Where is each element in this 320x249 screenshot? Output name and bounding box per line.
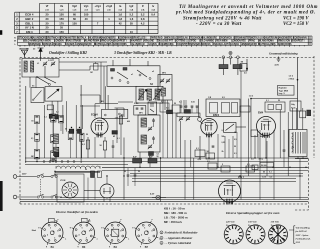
svg-text:5: 5 bbox=[222, 164, 223, 166]
svg-text:ECH 4: ECH 4 bbox=[25, 13, 34, 17]
svg-text:0,1: 0,1 bbox=[222, 130, 225, 132]
svg-text:EBF2: EBF2 bbox=[213, 114, 220, 117]
svg-text:110V - Sytten: 110V - Sytten bbox=[296, 234, 309, 237]
svg-text:4: 4 bbox=[79, 234, 80, 237]
svg-text:4: 4 bbox=[110, 234, 111, 237]
svg-text:STOCKHOLM: STOCKHOLM bbox=[18, 38, 32, 40]
svg-text:0,1: 0,1 bbox=[44, 117, 47, 119]
svg-text:6: 6 bbox=[82, 227, 83, 229]
svg-text:LUXEMBOURG: LUXEMBOURG bbox=[158, 44, 174, 46]
svg-text:50: 50 bbox=[234, 146, 236, 148]
svg-text:50: 50 bbox=[31, 121, 33, 123]
svg-text:LONDON REG: LONDON REG bbox=[231, 41, 246, 43]
svg-text:Type M08: Type M08 bbox=[279, 90, 289, 92]
svg-text:60: 60 bbox=[73, 13, 76, 17]
svg-text:6: 6 bbox=[144, 227, 145, 229]
svg-text:60: 60 bbox=[73, 17, 76, 21]
svg-text:DEUTSCHLANDS: DEUTSCHLANDS bbox=[258, 43, 276, 46]
svg-text:20: 20 bbox=[46, 17, 49, 21]
svg-text:WARSZAWA: WARSZAWA bbox=[188, 43, 201, 46]
svg-text:fra 220V til: fra 220V til bbox=[296, 230, 307, 233]
svg-text:UY1N: UY1N bbox=[60, 180, 66, 182]
svg-text:ANKARA: ANKARA bbox=[52, 43, 62, 46]
svg-text:KAUNAS: KAUNAS bbox=[65, 43, 75, 46]
svg-text:MOSKVA: MOSKVA bbox=[42, 43, 52, 46]
svg-text:4: 4 bbox=[141, 234, 142, 237]
svg-text:Type 110a: Type 110a bbox=[226, 224, 237, 227]
svg-text:0,4: 0,4 bbox=[151, 13, 155, 17]
svg-text:0,1: 0,1 bbox=[266, 100, 269, 102]
svg-text:8: 8 bbox=[89, 230, 90, 232]
svg-text:50: 50 bbox=[124, 171, 126, 173]
svg-text:BUDAPEST I: BUDAPEST I bbox=[114, 40, 127, 43]
svg-text:Vg1: Vg1 bbox=[84, 4, 89, 8]
svg-text:If: If bbox=[142, 4, 144, 8]
svg-text:SOTTENS: SOTTENS bbox=[175, 41, 186, 43]
svg-text:20: 20 bbox=[46, 26, 49, 30]
svg-text:2: 2 bbox=[54, 238, 55, 240]
svg-text:volt: volt bbox=[107, 9, 111, 12]
svg-text:50: 50 bbox=[278, 100, 280, 102]
svg-text:STOCKHOLM: STOCKHOLM bbox=[189, 38, 203, 40]
svg-text:4,2: 4,2 bbox=[141, 21, 145, 25]
svg-text:2: 2 bbox=[161, 238, 162, 240]
svg-text:150: 150 bbox=[59, 30, 64, 34]
svg-text:HUIZEN: HUIZEN bbox=[149, 44, 157, 46]
svg-text:RADIO PARIS: RADIO PARIS bbox=[113, 43, 127, 46]
svg-text:0,25: 0,25 bbox=[222, 142, 226, 144]
svg-text:BRESLAU: BRESLAU bbox=[178, 37, 189, 40]
svg-text:Vf: Vf bbox=[46, 4, 49, 8]
svg-text:Forbindelser fl.: Forbindelser fl. bbox=[296, 237, 311, 240]
svg-text:400: 400 bbox=[127, 120, 130, 123]
svg-text:0,1: 0,1 bbox=[117, 138, 120, 140]
svg-text:3 Omskifter-Stillinger KB2 - M: 3 Omskifter-Stillinger KB2 - MB - LB bbox=[113, 51, 172, 55]
svg-text:Diverse Omskifter set fra nede: Diverse Omskifter set fra neden bbox=[55, 210, 98, 214]
svg-text:DROITWICH: DROITWICH bbox=[46, 38, 59, 40]
svg-text:1: 1 bbox=[262, 159, 263, 161]
svg-text:0,1: 0,1 bbox=[31, 138, 34, 140]
svg-text:4,5V: 4,5V bbox=[150, 193, 155, 196]
svg-text:- - Apparatets Klemmer: - - Apparatets Klemmer bbox=[165, 236, 194, 240]
svg-text:mA: mA bbox=[151, 9, 155, 12]
svg-text:g: g bbox=[77, 246, 78, 248]
svg-text:PRAG: PRAG bbox=[249, 40, 255, 43]
svg-text:0,1: 0,1 bbox=[234, 153, 237, 155]
svg-text:WIEN OSLO: WIEN OSLO bbox=[165, 38, 177, 40]
svg-text:volt: volt bbox=[73, 9, 77, 12]
svg-text:0,1: 0,1 bbox=[184, 107, 187, 109]
svg-text:LEIPZIG: LEIPZIG bbox=[188, 41, 196, 43]
svg-text:MOTALA LUX: MOTALA LUX bbox=[251, 37, 265, 40]
svg-text:KAUNAS: KAUNAS bbox=[230, 43, 240, 46]
svg-text:2 Watt: 2 Watt bbox=[289, 77, 295, 80]
svg-text:BRNO LYON: BRNO LYON bbox=[277, 41, 290, 43]
svg-text:volt: volt bbox=[45, 9, 49, 12]
svg-text:KB f : 16 - 50 m: KB f : 16 - 50 m bbox=[164, 207, 185, 211]
svg-text:VC2 = 150 V: VC2 = 150 V bbox=[283, 22, 309, 27]
svg-text:4-5V: 4-5V bbox=[275, 63, 280, 66]
svg-text:0,05: 0,05 bbox=[191, 102, 195, 104]
svg-text:g: g bbox=[70, 227, 71, 229]
svg-text:20: 20 bbox=[46, 21, 49, 25]
svg-text:2: 2 bbox=[148, 238, 149, 240]
svg-text:Til Maalingerne er anvendt et: Til Maalingerne er anvendt et Voltmeter … bbox=[179, 5, 318, 10]
svg-text:8: 8 bbox=[57, 230, 58, 232]
svg-text:LENINGRAD RD: LENINGRAD RD bbox=[241, 43, 258, 46]
svg-text:MF : 450 kc/s: MF : 450 kc/s bbox=[164, 220, 182, 224]
svg-text:ECH4: ECH4 bbox=[91, 114, 98, 117]
svg-text:EM 4: EM 4 bbox=[26, 30, 33, 34]
svg-text:55: 55 bbox=[60, 26, 63, 30]
svg-text:5,0: 5,0 bbox=[251, 159, 254, 161]
svg-text:3-23: 3-23 bbox=[48, 60, 52, 62]
svg-text:VC1 = 190 V: VC1 = 190 V bbox=[283, 17, 309, 22]
svg-text:volt: volt bbox=[96, 9, 100, 12]
svg-text:LB : 750 - 2000 m: LB : 750 - 2000 m bbox=[164, 216, 188, 220]
svg-text:LANGENBERG: LANGENBERG bbox=[277, 37, 292, 40]
svg-text:Højttaler: Højttaler bbox=[279, 87, 288, 90]
svg-text:L1: L1 bbox=[37, 63, 39, 65]
svg-text:Strømforbrug ved 220V ∿ 46 Wat: Strømforbrug ved 220V ∿ 46 Watt bbox=[183, 17, 262, 22]
svg-text:DEUTSCHLANDS: DEUTSCHLANDS bbox=[94, 43, 112, 46]
svg-text:- 220V = ca 30 Watt: - 220V = ca 30 Watt bbox=[196, 22, 242, 27]
svg-text:MF1: MF1 bbox=[139, 113, 143, 115]
svg-text:BRUXELLES I: BRUXELLES I bbox=[132, 38, 146, 40]
svg-text:170: 170 bbox=[59, 21, 64, 25]
svg-text:4: 4 bbox=[47, 234, 48, 237]
svg-text:20: 20 bbox=[46, 13, 49, 17]
svg-text:Diverse Spændingsgrupper set f: Diverse Spændingsgrupper set fra oven bbox=[225, 211, 280, 215]
svg-text:0,1: 0,1 bbox=[166, 108, 169, 110]
svg-text:OSLO HAMBG: OSLO HAMBG bbox=[199, 40, 214, 43]
svg-text:0,1: 0,1 bbox=[56, 112, 59, 114]
svg-text:Imp. 5: Imp. 5 bbox=[279, 93, 286, 95]
svg-text:1,6: 1,6 bbox=[130, 17, 134, 21]
svg-text:150: 150 bbox=[59, 13, 64, 17]
svg-text:M: M bbox=[14, 41, 16, 43]
svg-text:- - Fjernes Gitterkabe: - - Fjernes Gitterkabel bbox=[165, 241, 192, 245]
svg-text:12 B: 12 B bbox=[296, 241, 301, 244]
svg-text:55: 55 bbox=[130, 21, 133, 25]
svg-text:EM4: EM4 bbox=[258, 112, 264, 115]
svg-text:DROITWICH: DROITWICH bbox=[220, 38, 233, 40]
svg-text:PRAG STRASB: PRAG STRASB bbox=[66, 40, 82, 43]
svg-text:BUDAPEST I: BUDAPEST I bbox=[292, 40, 305, 43]
svg-text:3: 3 bbox=[161, 243, 162, 245]
svg-text:KOBENHAVN: KOBENHAVN bbox=[293, 37, 307, 40]
svg-text:4000: 4000 bbox=[260, 135, 264, 138]
svg-text:2M: 2M bbox=[31, 156, 34, 158]
svg-text:g: g bbox=[38, 227, 39, 229]
svg-text:RIGA WIEN: RIGA WIEN bbox=[216, 40, 228, 43]
svg-text:MILANO ROMA: MILANO ROMA bbox=[84, 40, 100, 43]
svg-text:HILVERSUM: HILVERSUM bbox=[88, 38, 100, 40]
svg-text:100: 100 bbox=[84, 13, 89, 17]
svg-text:Ved Omstilling: Ved Omstilling bbox=[296, 227, 311, 230]
svg-text:a1: a1 bbox=[131, 74, 133, 76]
svg-text:g: g bbox=[101, 227, 102, 229]
svg-text:1,8: 1,8 bbox=[118, 17, 122, 21]
svg-text:MILANO ROMA: MILANO ROMA bbox=[258, 40, 274, 43]
svg-text:6: 6 bbox=[50, 227, 51, 229]
svg-text:Type 110c: Type 110c bbox=[271, 224, 282, 227]
svg-text:8: 8 bbox=[151, 230, 152, 232]
svg-text:0,3: 0,3 bbox=[161, 101, 164, 103]
svg-text:OSLO HAMBG: OSLO HAMBG bbox=[23, 40, 38, 43]
svg-text:mA: mA bbox=[118, 9, 122, 12]
svg-text:0,8: 0,8 bbox=[141, 17, 145, 21]
svg-text:RADIO PARIS: RADIO PARIS bbox=[278, 43, 292, 46]
svg-text:1M: 1M bbox=[90, 72, 93, 74]
svg-text:MOTALA: MOTALA bbox=[77, 37, 86, 40]
svg-text:Vg2: Vg2 bbox=[72, 4, 77, 8]
svg-text:2: 2 bbox=[210, 97, 211, 99]
svg-text:1,6: 1,6 bbox=[118, 13, 122, 17]
svg-text:Grammofontilslutning: Grammofontilslutning bbox=[269, 52, 298, 56]
svg-text:KALUNDBORG: KALUNDBORG bbox=[202, 37, 218, 40]
svg-text:0,5: 0,5 bbox=[234, 139, 237, 141]
svg-text:HILVERSUM: HILVERSUM bbox=[265, 38, 277, 40]
svg-text:42: 42 bbox=[119, 21, 122, 25]
svg-text:1: 1 bbox=[161, 232, 162, 234]
svg-text:50: 50 bbox=[157, 156, 159, 158]
svg-text:g: g bbox=[46, 246, 47, 248]
svg-text:8: 8 bbox=[120, 230, 121, 232]
svg-text:pr.Volt med Stødpladespænding: pr.Volt med Stødpladespænding af 4ˣ, der… bbox=[175, 11, 316, 16]
svg-text:BRNO LYON: BRNO LYON bbox=[100, 41, 113, 43]
svg-text:MB : 180 - 580 m: MB : 180 - 580 m bbox=[164, 211, 187, 215]
svg-text:BEROMUNSTER: BEROMUNSTER bbox=[59, 38, 76, 40]
svg-text:LANGENBERG: LANGENBERG bbox=[101, 37, 116, 40]
svg-text:Udg.: Udg. bbox=[291, 104, 296, 106]
svg-text:LONDON: LONDON bbox=[54, 41, 64, 43]
svg-text:25: 25 bbox=[292, 147, 294, 149]
svg-text:40: 40 bbox=[85, 17, 88, 21]
svg-text:0,5: 0,5 bbox=[207, 161, 210, 163]
svg-text:Ig2: Ig2 bbox=[130, 4, 134, 8]
svg-text:+Vg1: +Vg1 bbox=[95, 4, 102, 8]
svg-text:a2: a2 bbox=[152, 71, 154, 73]
svg-text:150: 150 bbox=[59, 17, 64, 21]
svg-text:Forbindelse til Mellemleder: Forbindelse til Mellemleder bbox=[165, 231, 199, 235]
svg-text:50: 50 bbox=[65, 129, 67, 131]
svg-text:2: 2 bbox=[117, 238, 118, 240]
svg-text:220V: 220V bbox=[22, 174, 27, 176]
svg-text:volt: volt bbox=[84, 9, 88, 12]
svg-text:1M: 1M bbox=[241, 62, 244, 64]
svg-text:3-23: 3-23 bbox=[134, 103, 139, 105]
svg-text:0,1: 0,1 bbox=[247, 164, 250, 166]
svg-text:mA: mA bbox=[130, 9, 134, 12]
svg-text:BEROMUNSTER: BEROMUNSTER bbox=[233, 38, 250, 40]
svg-text:0,1: 0,1 bbox=[179, 102, 182, 104]
svg-text:50: 50 bbox=[174, 103, 176, 105]
svg-text:50 000: 50 000 bbox=[261, 165, 267, 167]
svg-text:volt: volt bbox=[60, 9, 64, 12]
svg-text:5,2: 5,2 bbox=[141, 13, 145, 17]
svg-text:ATHLONE: ATHLONE bbox=[144, 40, 155, 43]
svg-text:50: 50 bbox=[138, 171, 140, 173]
svg-text:50: 50 bbox=[86, 134, 88, 136]
svg-text:+Vg2: +Vg2 bbox=[106, 4, 113, 8]
svg-text:KOBENHAVN: KOBENHAVN bbox=[118, 37, 132, 40]
svg-text:150: 150 bbox=[72, 21, 77, 25]
svg-text:g: g bbox=[109, 246, 110, 248]
svg-text:20: 20 bbox=[46, 30, 49, 34]
svg-text:5,2: 5,2 bbox=[130, 13, 134, 17]
svg-text:30: 30 bbox=[85, 169, 87, 171]
svg-text:MF2: MF2 bbox=[162, 73, 166, 75]
svg-text:g: g bbox=[140, 246, 141, 248]
svg-text:Maal: Maal bbox=[32, 230, 37, 232]
svg-text:Omskifter i Stilling KB2: Omskifter i Stilling KB2 bbox=[49, 51, 87, 55]
svg-text:2: 2 bbox=[86, 238, 87, 240]
svg-text:mA: mA bbox=[141, 9, 145, 12]
svg-text:g: g bbox=[132, 227, 133, 229]
svg-text:RIGA WIEN: RIGA WIEN bbox=[39, 40, 51, 43]
svg-text:Type 110b: Type 110b bbox=[248, 224, 259, 227]
svg-text:10: 10 bbox=[130, 30, 133, 34]
svg-text:BUKAREST: BUKAREST bbox=[130, 40, 143, 43]
